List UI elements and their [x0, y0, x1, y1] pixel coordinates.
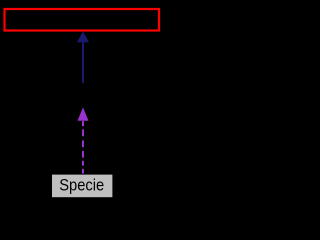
node: middle class (black border/text on transparent: invisible against background, spans y 84-107) [40, 84, 126, 107]
node: top class box (red border, truncated relations) [5, 9, 160, 31]
svg-text:Specie: Specie [59, 176, 104, 195]
inheritance arrow (midnightblue, solid) [77, 32, 89, 84]
usage arrow (darkorchid, dashed) [78, 107, 89, 173]
node: Specie (current class, grey fill) [52, 174, 113, 198]
